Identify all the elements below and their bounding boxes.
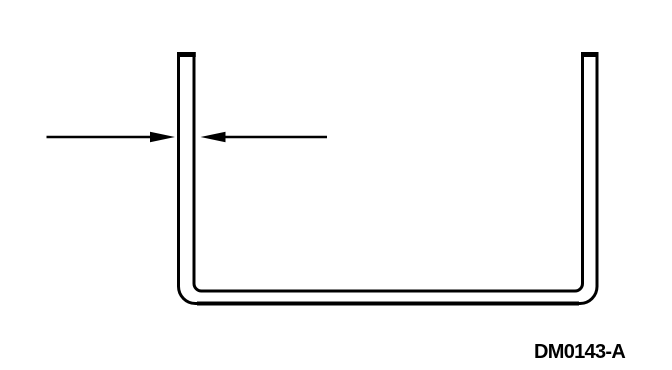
figure label [534, 342, 625, 362]
left dimension arrow [47, 132, 176, 143]
left wall top cap (thicker) [177, 52, 196, 57]
right wall top cap (thicker) [581, 52, 599, 57]
right dimension arrow [201, 132, 328, 143]
outer bottom line (thicker overlay) [197, 302, 579, 306]
U-channel sheet outline (outer and inner contour with top caps) [179, 55, 598, 304]
